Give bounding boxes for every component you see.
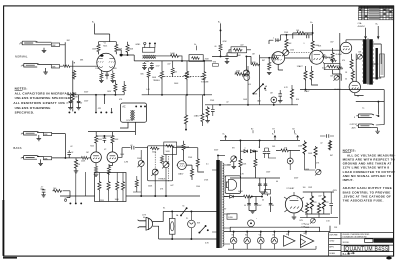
resistor R53 (322, 194, 325, 210)
potentiometer mid (162, 162, 169, 169)
resistor R11a bass pot (185, 70, 188, 80)
svg-text:.02: .02 (226, 101, 229, 103)
resistor R54 (305, 203, 308, 214)
svg-text:820: 820 (114, 68, 117, 70)
fuse F1 (169, 218, 175, 234)
svg-text:INPUT.: INPUT. (343, 178, 354, 182)
resistor R26 cathode (351, 70, 354, 80)
svg-text:.1: .1 (244, 148, 246, 150)
resistor R42 (196, 158, 199, 167)
svg-text:B+: B+ (223, 134, 225, 136)
junction box coupler (189, 55, 203, 62)
resistor R9 treble pot (160, 70, 163, 79)
diode D2 (250, 150, 254, 153)
svg-text:40: 40 (262, 199, 264, 201)
resistor R47 (52, 189, 62, 192)
svg-text:UNLESS OTHERWISE: UNLESS OTHERWISE (15, 106, 51, 110)
capacitor C21 (329, 203, 333, 205)
resistor R58 (328, 140, 331, 150)
wire output bus (340, 90, 384, 125)
svg-text:.1: .1 (303, 43, 305, 45)
wire box leads (227, 50, 251, 57)
capacitor C22 (327, 134, 329, 138)
wire cathode 2 (112, 70, 114, 80)
svg-text:.047: .047 (167, 64, 171, 66)
svg-text:2.2M: 2.2M (124, 161, 128, 163)
svg-text:C1A: C1A (358, 22, 363, 25)
capacitor C17 filter (264, 182, 268, 188)
wire coupling row2 (122, 147, 148, 149)
resistor R64 (114, 83, 117, 92)
wire loop top (230, 227, 319, 231)
svg-text:B2: B2 (292, 128, 294, 130)
resistor R44 (107, 181, 110, 191)
resistor R2 plate (97, 44, 100, 53)
svg-text:V6: V6 (303, 233, 305, 235)
svg-text:V7 6EB7: V7 6EB7 (286, 188, 295, 190)
node B+ tick (196, 46, 198, 51)
junction box tone 2 (164, 142, 177, 154)
transformer winding bar (216, 160, 220, 248)
resistor R45 (116, 181, 119, 191)
svg-text:THE ASSOCIATED FUSE.: THE ASSOCIATED FUSE. (343, 199, 384, 203)
resistor R12a volume pot (203, 71, 206, 81)
wire driver bus (220, 139, 300, 141)
svg-text:.1: .1 (273, 38, 275, 40)
potentiometer volume (243, 70, 250, 77)
capacitor C18 main filter (247, 201, 251, 207)
junction box divider (95, 173, 126, 202)
transformer core lines (221, 161, 222, 248)
transformer primary winding (363, 39, 367, 84)
svg-text:2200: 2200 (236, 70, 240, 72)
svg-text:.047: .047 (318, 195, 322, 197)
resistor R43 (98, 181, 101, 191)
tube V6 6L6GC (349, 81, 360, 92)
wire tube interconnect (346, 40, 364, 96)
svg-text:1/2W: 1/2W (308, 187, 312, 189)
node B+ arrow 2 (274, 135, 276, 140)
svg-text:V.M: V.M (213, 62, 217, 64)
tube V4 splitter (310, 50, 324, 64)
wire splitter outputs (320, 50, 341, 81)
svg-text:AC: AC (122, 106, 126, 109)
potentiometer bias (310, 218, 315, 223)
switch S2 (199, 226, 205, 233)
capacitor C19 main filter (254, 201, 258, 207)
resistor R36 cathode (94, 166, 97, 174)
wire bottom bus (60, 195, 200, 197)
resistor R10 (171, 67, 174, 74)
potentiometer bias 1 (357, 54, 363, 60)
resistor R57 (314, 146, 317, 157)
resistor R20 (331, 52, 334, 61)
svg-text:6L6GC: 6L6GC (336, 54, 343, 56)
resistor R25 cathode (350, 59, 353, 69)
wire B+ riser 2 (220, 23, 222, 56)
resistor R50 (254, 158, 257, 168)
svg-text:0.1: 0.1 (206, 164, 209, 166)
resistor R17 (271, 56, 279, 59)
fuse F2 box (265, 189, 271, 194)
heater V6 triangle (300, 235, 313, 248)
wire signal (212, 55, 237, 57)
svg-text:GZ34: GZ34 (238, 191, 243, 193)
svg-text:V5: V5 (286, 234, 288, 236)
wire cathode 1 (100, 70, 102, 80)
wire gang dashed to tube (289, 51, 309, 53)
wire plate coupling out (116, 50, 134, 58)
wire bias rail (300, 214, 338, 218)
svg-text:847: 847 (262, 60, 265, 62)
junction dot (72, 94, 74, 96)
resistor R14 (251, 63, 260, 66)
heater V1 (230, 237, 237, 244)
svg-text:.02: .02 (120, 56, 123, 58)
resistor R32 1M (74, 159, 77, 169)
resistor R49 (239, 158, 242, 168)
resistor R4 plate (115, 44, 118, 53)
svg-text:40: 40 (272, 205, 274, 207)
svg-text:3: 3 (297, 198, 298, 200)
svg-text:BASS: BASS (13, 146, 21, 150)
svg-text:50: 50 (345, 78, 347, 80)
resistor R37 cathode (107, 166, 110, 175)
capacitor C27 bypass (105, 72, 109, 78)
resistor R62 screen (304, 70, 307, 80)
svg-text:.847: .847 (330, 41, 334, 43)
potentiometer hum (282, 49, 289, 56)
capacitor C25 (143, 63, 147, 65)
wire jack links (376, 115, 384, 125)
resistor R67 (201, 113, 204, 123)
svg-text:NORMAL: NORMAL (15, 55, 28, 59)
potentiometer volume bass (137, 160, 144, 167)
svg-text:7025: 7025 (103, 45, 107, 47)
wire B+ drop 2 (377, 26, 379, 39)
ground (375, 131, 380, 133)
svg-text:.02: .02 (70, 146, 73, 148)
resistor R13 in box (231, 47, 247, 53)
wire heater return (228, 246, 316, 249)
tube V4A driver (272, 52, 285, 65)
capacitor C26 (150, 63, 154, 65)
svg-text:40: 40 (276, 181, 278, 183)
resistor R60 (235, 73, 244, 76)
svg-text:470: 470 (342, 60, 345, 62)
transformer tertiary winding (376, 48, 378, 80)
resistor R6 (71, 92, 74, 102)
wire grid (260, 58, 310, 70)
resistor R65 (123, 84, 126, 93)
wire top rail (303, 192, 334, 214)
svg-text:847: 847 (330, 155, 333, 157)
svg-text:CHKD: CHKD (329, 241, 335, 243)
wire jack J4 (37, 134, 81, 164)
svg-text:B+: B+ (194, 44, 196, 46)
wire long feedback line (339, 33, 341, 225)
resistor R11 (219, 44, 222, 52)
wire screen drops (306, 66, 319, 90)
junction dots (181, 60, 183, 62)
lamp symbol (287, 158, 293, 164)
tube V3A (178, 161, 187, 170)
resistor R1 68K (51, 43, 59, 46)
resistor R5 cathode (111, 73, 114, 80)
impedance selector block (380, 54, 385, 77)
svg-text:.1: .1 (258, 147, 260, 149)
capacitor C2 blob (120, 54, 123, 56)
resistor R30 68K (43, 132, 51, 135)
resistor R51 (243, 195, 252, 198)
potentiometer bias 2 (333, 75, 339, 81)
capacitor C1 blob (100, 54, 103, 56)
resistor R23 grid (330, 59, 337, 62)
resistor R68 (135, 179, 138, 188)
resistor R48 (280, 149, 289, 152)
svg-text:25: 25 (357, 96, 359, 98)
node B+ arrow 1 (225, 135, 227, 140)
svg-text:V2: V2 (245, 234, 247, 236)
svg-text:APPD: APPD (329, 246, 334, 249)
svg-text:12AX7: 12AX7 (304, 90, 309, 93)
svg-text:DWN FME: DWN FME (329, 234, 338, 236)
wire divider risers (76, 172, 86, 203)
capacitor C23 (211, 109, 215, 111)
resistor R18 (268, 61, 271, 70)
svg-text:12AX7: 12AX7 (194, 115, 201, 118)
resistor R3 cathode (100, 73, 103, 80)
tube V1 7025 (97, 53, 115, 71)
svg-text:BASS: BASS (186, 75, 192, 78)
jack J1 (20, 41, 38, 45)
resistor R34 plate (95, 135, 98, 144)
speaker fuse box (225, 176, 240, 194)
svg-text:12AX7: 12AX7 (178, 173, 183, 176)
wire B+ drop to output transformer (365, 28, 367, 39)
transformer core (367, 39, 368, 85)
wire volume riser (246, 55, 259, 97)
resistor R41 (190, 168, 193, 177)
resistor R38 (150, 147, 159, 150)
wire secondary taps (366, 39, 382, 79)
jack J3 (22, 131, 40, 135)
lamp meter (248, 220, 255, 227)
svg-text:+: + (256, 218, 257, 220)
plug P1 body (146, 217, 153, 230)
resistor R7 (73, 70, 76, 79)
resistor R63 screen (310, 70, 313, 80)
wire grid (177, 146, 192, 165)
svg-text:V2: V2 (104, 149, 106, 151)
ground (37, 139, 42, 141)
svg-text:SCALE: SCALE (329, 252, 335, 255)
jack J5 speaker (356, 114, 374, 118)
potentiometer bias adj (230, 156, 237, 163)
wire mid rail (205, 104, 298, 106)
potentiometer treble bass (151, 169, 158, 176)
svg-text:117V 60: 117V 60 (126, 120, 133, 122)
svg-text:7025: 7025 (90, 145, 94, 147)
title block frame (329, 233, 394, 257)
svg-text:4.7: 4.7 (41, 187, 44, 189)
resistor R33 220K (81, 156, 89, 159)
svg-text:TREBLE: TREBLE (158, 178, 166, 180)
tube V2A (91, 152, 102, 163)
capacitor C11 (103, 138, 107, 140)
node B+ arrow 3 (297, 135, 299, 140)
diode D1 (244, 150, 248, 153)
ground (43, 72, 48, 74)
svg-text:.047: .047 (170, 185, 174, 187)
svg-text:UNLESS OTHERWISE SPECIFIED.: UNLESS OTHERWISE SPECIFIED. (15, 96, 72, 100)
svg-text:GRN: GRN (305, 169, 310, 171)
capacitor C20 (269, 201, 273, 207)
ground (225, 61, 230, 63)
wire module drop (120, 122, 135, 135)
svg-text:B+: B+ (295, 134, 297, 136)
wire divider input (63, 191, 70, 198)
resistor R56 (303, 140, 306, 155)
resistor R35 plate (111, 135, 114, 144)
wire screen (293, 33, 313, 39)
junction box tone (148, 146, 173, 181)
svg-text:QUANTUM B4SS: QUANTUM B4SS (345, 246, 389, 252)
svg-text:NOTES:: NOTES: (343, 148, 357, 152)
svg-text:OUTPUT: OUTPUT (350, 124, 359, 126)
wire jack J3 (37, 132, 65, 138)
svg-text:B2: B2 (251, 128, 253, 130)
resistor R52 27K (310, 194, 313, 210)
ground (38, 163, 43, 165)
wire transformer taps (212, 155, 230, 244)
svg-text:Ca: Ca (362, 107, 364, 109)
resistor R1b 68K (51, 65, 59, 68)
svg-text:100: 100 (303, 187, 306, 189)
svg-text:B+: B+ (272, 134, 274, 136)
resistor R8 100K (170, 54, 180, 57)
wire tone bottom bus (142, 94, 212, 96)
wire cap link (320, 136, 334, 150)
switch S1 (181, 208, 187, 215)
speaker horn symbol (226, 179, 236, 190)
svg-text:60~: 60~ (143, 217, 146, 219)
resistor R13a (147, 70, 150, 77)
heater V2 (244, 237, 251, 244)
switch S3 lever (253, 84, 263, 93)
wire diode row (240, 140, 259, 151)
heater V5 triangle (284, 236, 295, 247)
svg-text:V1: V1 (231, 234, 233, 236)
jack J6 aux (356, 124, 374, 128)
potentiometer adj (315, 169, 321, 175)
junction dots (135, 105, 137, 107)
resistor R55 (317, 203, 320, 214)
wire bass-join vertical (72, 61, 74, 112)
wire riser (244, 66, 274, 105)
svg-text:B-1-4B: B-1-4B (343, 253, 351, 256)
svg-text:100K: 100K (170, 53, 175, 55)
bottom-right blob (386, 257, 392, 260)
transformer secondary winding (369, 39, 373, 84)
svg-text:B7: B7 (272, 128, 274, 130)
svg-text:6.847: 6.847 (322, 67, 327, 69)
wire B+ riser 3 (312, 24, 314, 50)
wire jack J1 to grid (36, 42, 66, 62)
resistor R39 (160, 155, 163, 163)
jack J4 (22, 156, 40, 160)
heater V3 (258, 237, 265, 244)
svg-text:V1: V1 (104, 42, 106, 44)
svg-text:PL: PL (186, 218, 188, 220)
transformer secondary bumps (223, 163, 224, 246)
wire gang dashed 2 (168, 156, 170, 182)
capacitor C3 filter (69, 99, 73, 105)
svg-text:1500: 1500 (95, 68, 99, 70)
svg-text:1500: 1500 (335, 66, 339, 68)
junction box (121, 103, 147, 122)
plug P1 prongs (138, 220, 146, 228)
junction dots row (68, 111, 70, 113)
svg-text:V3: V3 (259, 234, 261, 236)
tube V7 (285, 196, 302, 213)
svg-text:MODEL: MODEL (343, 242, 349, 244)
wire B+ riser (95, 23, 110, 41)
resistor R19 22K (322, 56, 328, 59)
svg-text:36: 36 (64, 198, 66, 200)
junction dots row (69, 202, 71, 204)
bottom-left print mark (3, 257, 17, 259)
lamp PL (271, 97, 277, 103)
wire tone top bus (134, 58, 212, 61)
resistor R24 (336, 67, 343, 70)
svg-text:S1: S1 (163, 208, 165, 210)
svg-text:12AX7: 12AX7 (297, 65, 304, 68)
svg-text:.02: .02 (71, 152, 74, 154)
wire gang dashed horizontal (164, 76, 204, 78)
transformer T-line (131, 110, 135, 120)
capacitor C4 filter (77, 99, 81, 105)
diode SR1 (230, 195, 234, 198)
svg-text:30: 30 (265, 90, 267, 92)
svg-text:SW: SW (197, 223, 200, 225)
heater V4 (271, 237, 278, 244)
svg-text:40: 40 (214, 46, 216, 48)
wire mid rail (230, 177, 280, 179)
wire plate bus (269, 35, 313, 44)
svg-text:40: 40 (244, 205, 246, 207)
resistor R15 (311, 40, 314, 50)
resistor R59 (206, 106, 209, 117)
wire mains (153, 211, 217, 239)
resistor R16 (285, 38, 288, 48)
svg-text:VOLUME: VOLUME (201, 82, 209, 84)
svg-text:20: 20 (66, 102, 68, 104)
tube voltage chart (359, 6, 394, 20)
capacitor C16 filter (258, 182, 262, 188)
lamp PL1 (188, 220, 196, 228)
connector block (142, 48, 154, 53)
svg-text:S1: S1 (182, 206, 184, 208)
capacitor C13 (42, 190, 46, 192)
wire output bus left (300, 89, 340, 91)
capacitor C10 (67, 152, 71, 154)
capacitor C24 (278, 94, 282, 96)
capacitor C7 (276, 38, 278, 42)
resistor grid stopper (62, 65, 71, 68)
capacitor C6 (225, 56, 229, 58)
svg-text:ALL RESISTORS 1/2WATT 10%: ALL RESISTORS 1/2WATT 10% (13, 101, 65, 105)
